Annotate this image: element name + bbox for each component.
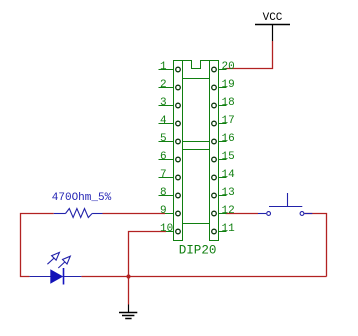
svg-text:5: 5	[160, 133, 167, 145]
wire: pin 10 down to bottom net	[129, 232, 167, 277]
svg-text:19: 19	[222, 79, 235, 91]
svg-text:DIP20: DIP20	[179, 244, 217, 258]
svg-text:17: 17	[222, 115, 235, 127]
IC pin stubs left pins 1-10	[159, 70, 174, 232]
LED D1	[30, 252, 82, 284]
svg-text:VCC: VCC	[263, 12, 283, 24]
svg-text:13: 13	[222, 187, 235, 199]
IC pin pads (circles)	[176, 67, 217, 234]
svg-text:15: 15	[222, 151, 235, 163]
svg-text:4: 4	[160, 115, 167, 127]
IC pin stubs right pins 11-20	[219, 70, 227, 232]
junction dot at LED/ground/button node	[126, 274, 130, 278]
wire: resistor right lead to pin 9	[103, 213, 166, 215]
svg-text:470Ohm_5%: 470Ohm_5%	[52, 192, 112, 204]
IC U1 DIP20 body	[174, 61, 219, 241]
svg-text:20: 20	[222, 61, 235, 73]
pin number labels left 1-10	[160, 61, 173, 235]
wire: pin 12 to button left	[226, 213, 259, 215]
svg-text:2: 2	[160, 79, 167, 91]
svg-text:11: 11	[222, 223, 236, 235]
svg-text:1: 1	[160, 61, 167, 73]
wire: resistor left lead to LED anode (left corner)	[21, 214, 54, 277]
ground	[119, 305, 137, 319]
svg-text:7: 7	[160, 169, 167, 181]
wire: button right down to bottom net	[304, 214, 326, 277]
svg-text:16: 16	[222, 133, 235, 145]
svg-text:9: 9	[160, 205, 167, 217]
wire: junction to ground	[128, 277, 130, 305]
power symbol VCC	[255, 12, 290, 41]
LED emission arrow 1	[47, 252, 59, 264]
LED emission arrow 2	[58, 256, 70, 268]
svg-text:6: 6	[160, 151, 167, 163]
svg-text:12: 12	[222, 205, 235, 217]
pushbutton S1	[258, 193, 312, 215]
svg-text:14: 14	[222, 169, 236, 181]
svg-text:3: 3	[160, 97, 167, 109]
wire: pin20 to VCC (red segment)	[226, 41, 273, 69]
svg-text:8: 8	[160, 187, 167, 199]
wire: bottom net LED cathode to button return	[81, 276, 326, 278]
svg-text:10: 10	[160, 223, 173, 235]
svg-text:18: 18	[222, 97, 235, 109]
pin number labels right 11-20	[222, 61, 236, 235]
resistor 470Ohm_5%	[54, 209, 103, 218]
